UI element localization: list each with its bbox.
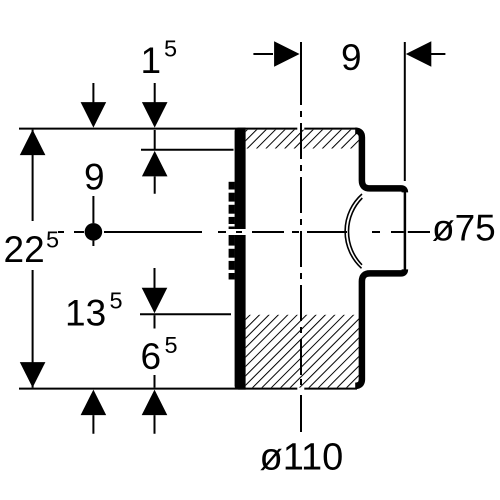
dimension 13.5 arrow up (outside below bottom line) — [81, 390, 107, 416]
svg-text:5: 5 — [165, 332, 178, 358]
right outline lower (branch bottom + thick step) — [355, 269, 405, 386]
wire: socket depth line 1.5 — [141, 149, 234, 151]
svg-text:1: 1 — [141, 40, 162, 81]
svg-text:5: 5 — [46, 226, 59, 252]
hatched band bottom (cut material) — [246, 315, 359, 388]
junction inner curve arc outer — [345, 194, 362, 268]
dimension 9 top arrow left — [406, 41, 432, 67]
svg-text:ø110: ø110 — [260, 437, 344, 479]
svg-text:ø75: ø75 — [432, 208, 496, 249]
dimension 1.5 line — [154, 83, 156, 194]
horizontal centerline — [58, 231, 430, 233]
node: centerline reference dot — [85, 223, 103, 241]
svg-text:13: 13 — [65, 293, 106, 334]
left wall of fitting (thick with ribs) — [235, 128, 246, 390]
hatched band top (cut material) — [246, 130, 359, 149]
right outline upper (thick step + branch top) — [355, 131, 405, 193]
svg-text:22: 22 — [4, 229, 45, 270]
svg-text:5: 5 — [164, 36, 177, 62]
dimension 1.5 arrow down — [142, 102, 168, 128]
white gap in wall at centerline — [227, 229, 248, 235]
wire: socket depth line 6.5 — [140, 313, 231, 315]
svg-text:6: 6 — [141, 336, 162, 377]
svg-text:5: 5 — [110, 288, 123, 314]
svg-text:9: 9 — [84, 157, 105, 198]
svg-text:9: 9 — [341, 37, 362, 78]
dimension 22.5 line — [32, 130, 34, 388]
dimension 9 top arrow right — [274, 41, 300, 67]
dimension 6.5 arrow up — [142, 390, 168, 416]
ribs on left wall — [229, 182, 235, 280]
wire: bottom face line — [19, 388, 357, 390]
dimension 6.5 line — [154, 268, 156, 434]
dimension 9 arrow down (outside above top line) — [81, 102, 107, 128]
dimension 22.5 arrow down — [20, 362, 46, 388]
extension line right of branch — [404, 42, 406, 181]
dimension 1.5 arrow up — [142, 151, 168, 177]
wire: top face line — [19, 128, 357, 130]
dimension 22.5 arrow up — [20, 130, 46, 156]
branch opening edge (thin) — [404, 190, 407, 271]
vertical centerline — [300, 42, 302, 432]
junction inner curve arc inner — [349, 198, 363, 265]
dimension 9 top line right part — [431, 53, 445, 55]
dimension 9 top line left part — [253, 53, 273, 55]
dimension 9/13.5 line left — [92, 83, 94, 434]
dimension 6.5 arrow down — [142, 288, 168, 314]
